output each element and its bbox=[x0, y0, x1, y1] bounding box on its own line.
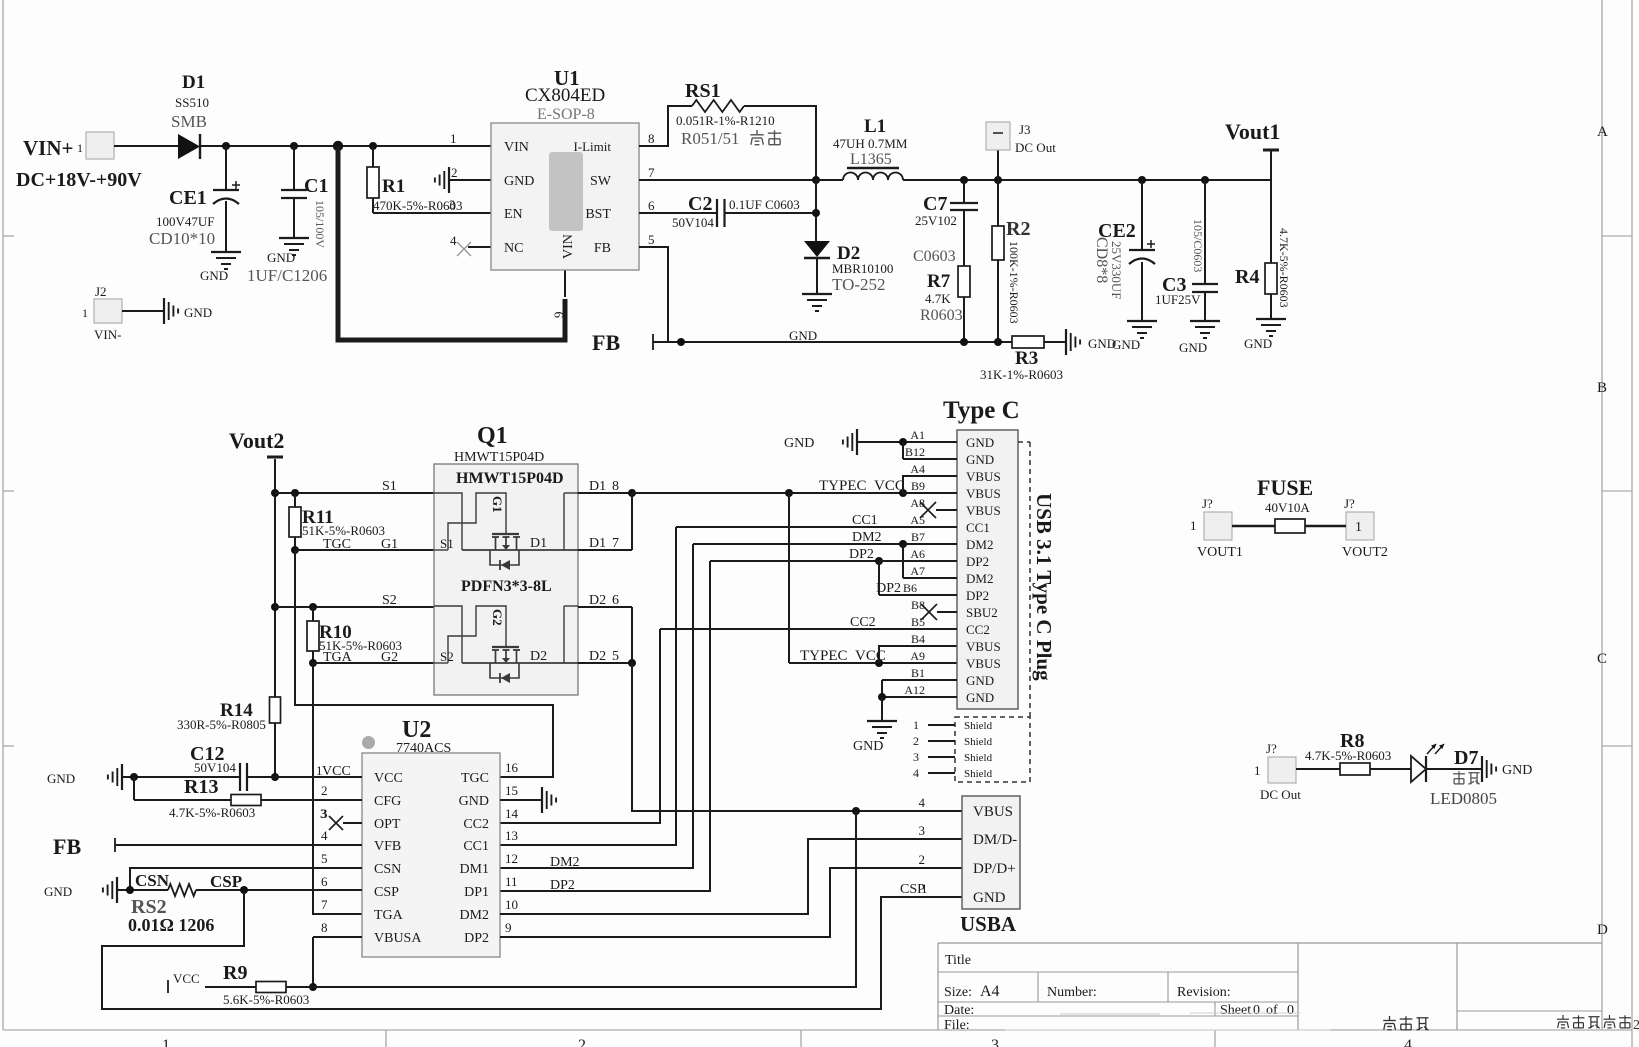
svg-text:3: 3 bbox=[913, 750, 919, 764]
svg-text:A6: A6 bbox=[910, 547, 925, 561]
svg-text:VBUS: VBUS bbox=[966, 656, 1001, 671]
svg-text:LED0805: LED0805 bbox=[1430, 789, 1497, 808]
svg-text:31K-1%-R0603: 31K-1%-R0603 bbox=[980, 367, 1063, 382]
svg-text:L1: L1 bbox=[864, 116, 886, 137]
svg-text:R9: R9 bbox=[223, 962, 247, 984]
svg-text:3: 3 bbox=[919, 823, 926, 838]
svg-text:DP2: DP2 bbox=[966, 554, 989, 569]
svg-text:GND: GND bbox=[1244, 336, 1272, 351]
svg-text:DP/D+: DP/D+ bbox=[973, 861, 1016, 877]
svg-text:0: 0 bbox=[1287, 1003, 1294, 1018]
svg-text:VCC: VCC bbox=[374, 771, 403, 786]
svg-text:USBA: USBA bbox=[960, 912, 1017, 936]
svg-text:0.1UF C0603: 0.1UF C0603 bbox=[729, 197, 800, 212]
svg-text:File:: File: bbox=[944, 1018, 970, 1033]
svg-text:of: of bbox=[1266, 1003, 1278, 1018]
svg-text:D1: D1 bbox=[589, 536, 606, 551]
svg-text:TYPEC VCC: TYPEC VCC bbox=[800, 648, 886, 664]
svg-text:I-Limit: I-Limit bbox=[573, 139, 611, 154]
svg-text:2: 2 bbox=[578, 1037, 586, 1047]
svg-text:4.7K-5%-R0603: 4.7K-5%-R0603 bbox=[1305, 748, 1391, 763]
svg-text:4.7K: 4.7K bbox=[925, 291, 951, 306]
svg-text:NC: NC bbox=[504, 241, 523, 256]
svg-text:D7: D7 bbox=[1454, 747, 1478, 769]
svg-text:2: 2 bbox=[913, 734, 919, 748]
svg-text:4: 4 bbox=[321, 828, 328, 843]
svg-text:GND: GND bbox=[966, 673, 994, 688]
svg-text:A7: A7 bbox=[910, 564, 925, 578]
svg-text:50V104: 50V104 bbox=[194, 760, 236, 775]
svg-text:5: 5 bbox=[321, 851, 328, 866]
svg-text:DP1: DP1 bbox=[464, 885, 489, 900]
svg-text:CC2: CC2 bbox=[966, 622, 990, 637]
svg-text:CSP: CSP bbox=[374, 885, 399, 900]
svg-text:S1: S1 bbox=[440, 536, 454, 551]
svg-text:DP2: DP2 bbox=[550, 878, 575, 893]
svg-text:0.01Ω 1206: 0.01Ω 1206 bbox=[128, 915, 214, 935]
svg-text:B1: B1 bbox=[911, 666, 925, 680]
svg-text:A4: A4 bbox=[910, 462, 925, 476]
svg-text:SMB: SMB bbox=[171, 112, 207, 131]
svg-text:2: 2 bbox=[451, 165, 458, 180]
svg-text:VBUS: VBUS bbox=[973, 804, 1013, 820]
svg-text:12: 12 bbox=[505, 851, 518, 866]
svg-text:CC1: CC1 bbox=[852, 513, 878, 528]
svg-text:B6: B6 bbox=[903, 581, 917, 595]
svg-text:CC2: CC2 bbox=[850, 615, 876, 630]
svg-text:VBUS: VBUS bbox=[966, 639, 1001, 654]
svg-text:VIN-: VIN- bbox=[94, 327, 121, 342]
svg-text:E-SOP-8: E-SOP-8 bbox=[537, 106, 595, 123]
svg-text:HMWT15P04D: HMWT15P04D bbox=[454, 450, 544, 465]
svg-text:CD8*8: CD8*8 bbox=[1093, 237, 1110, 283]
svg-text:CSN: CSN bbox=[135, 871, 170, 890]
svg-text:HMWT15P04D: HMWT15P04D bbox=[456, 470, 564, 487]
svg-text:Vout1: Vout1 bbox=[1225, 119, 1280, 144]
svg-text:DM/D-: DM/D- bbox=[973, 832, 1017, 848]
svg-text:B4: B4 bbox=[911, 632, 925, 646]
svg-text:VOUT2: VOUT2 bbox=[1342, 545, 1388, 560]
svg-text:CE1: CE1 bbox=[169, 187, 207, 209]
svg-text:BST: BST bbox=[585, 207, 611, 222]
svg-text:EN: EN bbox=[504, 207, 523, 222]
svg-text:7: 7 bbox=[648, 165, 655, 180]
svg-text:D1: D1 bbox=[589, 479, 606, 494]
svg-text:VBUS: VBUS bbox=[966, 486, 1001, 501]
svg-text:DM2: DM2 bbox=[852, 530, 882, 545]
svg-text:S1: S1 bbox=[382, 479, 397, 494]
svg-text:100K-1%-R0603: 100K-1%-R0603 bbox=[1007, 241, 1021, 324]
svg-text:Q1: Q1 bbox=[477, 423, 508, 449]
svg-text:CX804ED: CX804ED bbox=[525, 85, 605, 106]
svg-text:GND: GND bbox=[966, 690, 994, 705]
svg-text:105/C0603: 105/C0603 bbox=[1191, 219, 1205, 272]
svg-text:G2: G2 bbox=[490, 609, 505, 626]
svg-text:Shield: Shield bbox=[964, 768, 993, 780]
svg-text:1: 1 bbox=[921, 881, 928, 896]
svg-text:1: 1 bbox=[913, 718, 919, 732]
svg-text:R0603: R0603 bbox=[920, 307, 963, 324]
svg-text:Shield: Shield bbox=[964, 736, 993, 748]
svg-text:25V102: 25V102 bbox=[915, 213, 957, 228]
svg-text:VBUS: VBUS bbox=[966, 503, 1001, 518]
svg-text:RS1: RS1 bbox=[685, 80, 721, 102]
svg-text:A: A bbox=[1597, 124, 1608, 140]
svg-text:Vout2: Vout2 bbox=[229, 428, 284, 453]
svg-text:Sheet: Sheet bbox=[1220, 1003, 1251, 1018]
svg-text:DP2: DP2 bbox=[966, 588, 989, 603]
svg-text:105/100V: 105/100V bbox=[313, 200, 327, 248]
svg-text:6: 6 bbox=[612, 593, 619, 608]
svg-text:CFG: CFG bbox=[374, 794, 401, 809]
svg-text:VCC: VCC bbox=[173, 971, 200, 986]
svg-text:J3: J3 bbox=[1019, 122, 1031, 137]
svg-text:CC1: CC1 bbox=[463, 839, 489, 854]
svg-text:Date:: Date: bbox=[944, 1003, 974, 1018]
svg-text:VIN+: VIN+ bbox=[23, 136, 73, 160]
svg-text:1: 1 bbox=[82, 306, 88, 320]
svg-text:CC2: CC2 bbox=[463, 817, 489, 832]
svg-text:9: 9 bbox=[505, 920, 512, 935]
svg-text:D1: D1 bbox=[530, 536, 547, 551]
svg-text:GND: GND bbox=[44, 884, 72, 899]
svg-text:GND: GND bbox=[1112, 337, 1140, 352]
svg-text:3: 3 bbox=[320, 806, 327, 821]
svg-text:FB: FB bbox=[594, 241, 611, 256]
svg-text:1: 1 bbox=[450, 131, 457, 146]
svg-text:4: 4 bbox=[913, 766, 919, 780]
svg-text:VIN: VIN bbox=[504, 140, 529, 155]
svg-text:GND: GND bbox=[184, 305, 212, 320]
svg-text:Type C: Type C bbox=[943, 397, 1020, 424]
svg-text:G1: G1 bbox=[381, 537, 398, 552]
svg-text:C7: C7 bbox=[923, 193, 947, 215]
svg-text:GND: GND bbox=[459, 794, 489, 809]
svg-text:A8: A8 bbox=[910, 496, 925, 510]
svg-text:J?: J? bbox=[1344, 496, 1355, 511]
svg-text:47UH 0.7MM: 47UH 0.7MM bbox=[833, 136, 908, 151]
svg-text:TO-252: TO-252 bbox=[832, 275, 886, 294]
svg-text:GND: GND bbox=[1179, 340, 1207, 355]
svg-text:7: 7 bbox=[321, 897, 328, 912]
svg-text:3: 3 bbox=[449, 197, 456, 212]
svg-text:1: 1 bbox=[77, 141, 83, 155]
svg-text:TGA: TGA bbox=[374, 908, 404, 923]
svg-text:Shield: Shield bbox=[964, 752, 993, 764]
svg-text:TYPEC VCC: TYPEC VCC bbox=[819, 478, 905, 494]
svg-text:2: 2 bbox=[919, 852, 926, 867]
svg-text:4: 4 bbox=[919, 795, 926, 810]
svg-text:GND: GND bbox=[966, 452, 994, 467]
svg-text:14: 14 bbox=[505, 806, 519, 821]
svg-text:R13: R13 bbox=[184, 776, 218, 798]
svg-text:3: 3 bbox=[991, 1037, 999, 1047]
svg-text:8: 8 bbox=[648, 131, 655, 146]
svg-text:DM2: DM2 bbox=[966, 537, 993, 552]
svg-text:GND: GND bbox=[504, 174, 534, 189]
svg-text:R1: R1 bbox=[382, 176, 405, 197]
svg-text:CSP: CSP bbox=[210, 872, 242, 891]
svg-text:GND: GND bbox=[1502, 763, 1532, 778]
svg-text:6: 6 bbox=[648, 198, 655, 213]
svg-text:DM1: DM1 bbox=[459, 862, 489, 877]
svg-text:2: 2 bbox=[1633, 1018, 1639, 1033]
svg-text:11: 11 bbox=[505, 874, 518, 889]
svg-text:OPT: OPT bbox=[374, 817, 401, 832]
svg-text:5: 5 bbox=[612, 649, 619, 664]
svg-text:SBU2: SBU2 bbox=[966, 605, 998, 620]
svg-text:CD10*10: CD10*10 bbox=[149, 229, 215, 248]
svg-text:Size:: Size: bbox=[944, 985, 972, 1000]
svg-text:U2: U2 bbox=[402, 717, 431, 743]
svg-text:16: 16 bbox=[505, 760, 519, 775]
svg-text:VFB: VFB bbox=[374, 839, 401, 854]
svg-text:R2: R2 bbox=[1006, 218, 1030, 240]
svg-text:J?: J? bbox=[1202, 496, 1213, 511]
svg-text:FB: FB bbox=[53, 834, 81, 859]
svg-text:7740ACS: 7740ACS bbox=[396, 741, 451, 756]
svg-text:DM2: DM2 bbox=[966, 571, 993, 586]
svg-text:DP2: DP2 bbox=[464, 931, 489, 946]
svg-text:CSN: CSN bbox=[374, 862, 401, 877]
svg-text:TGC: TGC bbox=[461, 771, 489, 786]
svg-text:J?: J? bbox=[1266, 741, 1277, 756]
svg-text:7: 7 bbox=[612, 536, 619, 551]
svg-text:4: 4 bbox=[1404, 1037, 1412, 1047]
svg-text:GND: GND bbox=[966, 435, 994, 450]
svg-text:GND: GND bbox=[789, 328, 817, 343]
svg-text:FB: FB bbox=[592, 330, 620, 355]
svg-text:GND: GND bbox=[47, 771, 75, 786]
svg-text:5: 5 bbox=[648, 232, 655, 247]
svg-text:R3: R3 bbox=[1015, 348, 1038, 369]
svg-text:C0603: C0603 bbox=[913, 248, 956, 265]
svg-text:D2: D2 bbox=[589, 649, 606, 664]
svg-text:L1365: L1365 bbox=[850, 151, 892, 168]
svg-text:1: 1 bbox=[1190, 518, 1197, 533]
svg-text:C1: C1 bbox=[304, 175, 328, 197]
svg-text:B12: B12 bbox=[905, 445, 925, 459]
svg-text:C: C bbox=[1597, 651, 1607, 667]
svg-text:D: D bbox=[1597, 922, 1608, 938]
svg-text:10: 10 bbox=[505, 897, 518, 912]
svg-text:PDFN3*3-8L: PDFN3*3-8L bbox=[461, 578, 552, 595]
svg-text:8: 8 bbox=[612, 479, 619, 494]
svg-text:FUSE: FUSE bbox=[1257, 475, 1313, 500]
svg-text:S2: S2 bbox=[440, 649, 454, 664]
svg-text:SS510: SS510 bbox=[175, 95, 209, 110]
svg-text:4.7K-5%-R0603: 4.7K-5%-R0603 bbox=[1277, 228, 1291, 308]
svg-text:USB 3.1 Type C Plug: USB 3.1 Type C Plug bbox=[1032, 493, 1056, 681]
svg-text:50V104: 50V104 bbox=[672, 215, 714, 230]
svg-text:SW: SW bbox=[590, 174, 612, 189]
svg-text:GND: GND bbox=[973, 890, 1006, 906]
svg-text:D1: D1 bbox=[182, 72, 205, 93]
svg-text:A4: A4 bbox=[980, 983, 1000, 1000]
svg-text:1: 1 bbox=[1254, 763, 1261, 778]
svg-text:25V330UF: 25V330UF bbox=[1109, 241, 1124, 300]
svg-text:TGC: TGC bbox=[323, 537, 351, 552]
svg-text:0.051R-1%-R1210: 0.051R-1%-R1210 bbox=[676, 113, 775, 128]
svg-text:D2: D2 bbox=[530, 649, 547, 664]
svg-text:C2: C2 bbox=[688, 193, 712, 215]
svg-text:R4: R4 bbox=[1235, 266, 1259, 288]
svg-text:DM2: DM2 bbox=[459, 908, 489, 923]
svg-text:GND: GND bbox=[784, 436, 814, 451]
svg-text:MBR10100: MBR10100 bbox=[832, 261, 893, 276]
svg-text:A9: A9 bbox=[910, 649, 925, 663]
svg-text:R7: R7 bbox=[927, 271, 951, 292]
svg-text:Title: Title bbox=[945, 953, 971, 968]
svg-text:DC Out: DC Out bbox=[1015, 140, 1056, 155]
svg-text:DC Out: DC Out bbox=[1260, 787, 1301, 802]
svg-text:A1: A1 bbox=[910, 428, 925, 442]
svg-text:4: 4 bbox=[450, 233, 457, 248]
svg-text:D2: D2 bbox=[589, 593, 606, 608]
svg-text:1UF/C1206: 1UF/C1206 bbox=[247, 266, 327, 285]
svg-text:40V10A: 40V10A bbox=[1265, 500, 1310, 515]
svg-text:Shield: Shield bbox=[964, 720, 993, 732]
svg-text:Revision:: Revision: bbox=[1177, 985, 1231, 1000]
svg-text:GND: GND bbox=[200, 268, 228, 283]
svg-text:GND: GND bbox=[267, 250, 295, 265]
svg-text:G1: G1 bbox=[490, 496, 505, 513]
svg-text:R051/51: R051/51 bbox=[681, 129, 740, 148]
svg-text:B7: B7 bbox=[911, 530, 925, 544]
svg-text:VBUS: VBUS bbox=[966, 469, 1001, 484]
svg-text:J2: J2 bbox=[95, 284, 107, 299]
svg-text:2: 2 bbox=[321, 783, 328, 798]
svg-text:4.7K-5%-R0603: 4.7K-5%-R0603 bbox=[169, 805, 255, 820]
svg-text:B9: B9 bbox=[911, 479, 925, 493]
svg-text:15: 15 bbox=[505, 783, 518, 798]
svg-text:DM2: DM2 bbox=[550, 855, 580, 870]
svg-text:Number:: Number: bbox=[1047, 985, 1097, 1000]
svg-text:13: 13 bbox=[505, 828, 518, 843]
svg-text:330R-5%-R0805: 330R-5%-R0805 bbox=[177, 717, 266, 732]
svg-text:B: B bbox=[1597, 380, 1607, 396]
svg-text:100V47UF: 100V47UF bbox=[156, 214, 215, 229]
svg-text:51K-5%-R0603: 51K-5%-R0603 bbox=[302, 523, 385, 538]
svg-text:CC1: CC1 bbox=[966, 520, 990, 535]
svg-text:S2: S2 bbox=[382, 593, 397, 608]
svg-text:1: 1 bbox=[162, 1037, 170, 1047]
svg-text:VIN: VIN bbox=[561, 234, 576, 259]
svg-text:1: 1 bbox=[1355, 520, 1362, 535]
svg-text:A12: A12 bbox=[904, 683, 925, 697]
svg-text:8: 8 bbox=[321, 920, 328, 935]
svg-text:TGA: TGA bbox=[323, 650, 353, 665]
svg-text:G2: G2 bbox=[381, 650, 398, 665]
svg-text:GND: GND bbox=[853, 739, 883, 754]
svg-text:1UF25V: 1UF25V bbox=[1155, 292, 1201, 307]
svg-text:6: 6 bbox=[321, 874, 328, 889]
svg-text:VBUSA: VBUSA bbox=[374, 931, 422, 946]
svg-text:DP2: DP2 bbox=[849, 547, 874, 562]
svg-text:5.6K-5%-R0603: 5.6K-5%-R0603 bbox=[223, 992, 309, 1007]
svg-text:VOUT1: VOUT1 bbox=[1197, 545, 1243, 560]
svg-text:9: 9 bbox=[551, 312, 566, 319]
svg-text:DC+18V-+90V: DC+18V-+90V bbox=[16, 169, 142, 191]
svg-text:0: 0 bbox=[1253, 1003, 1260, 1018]
